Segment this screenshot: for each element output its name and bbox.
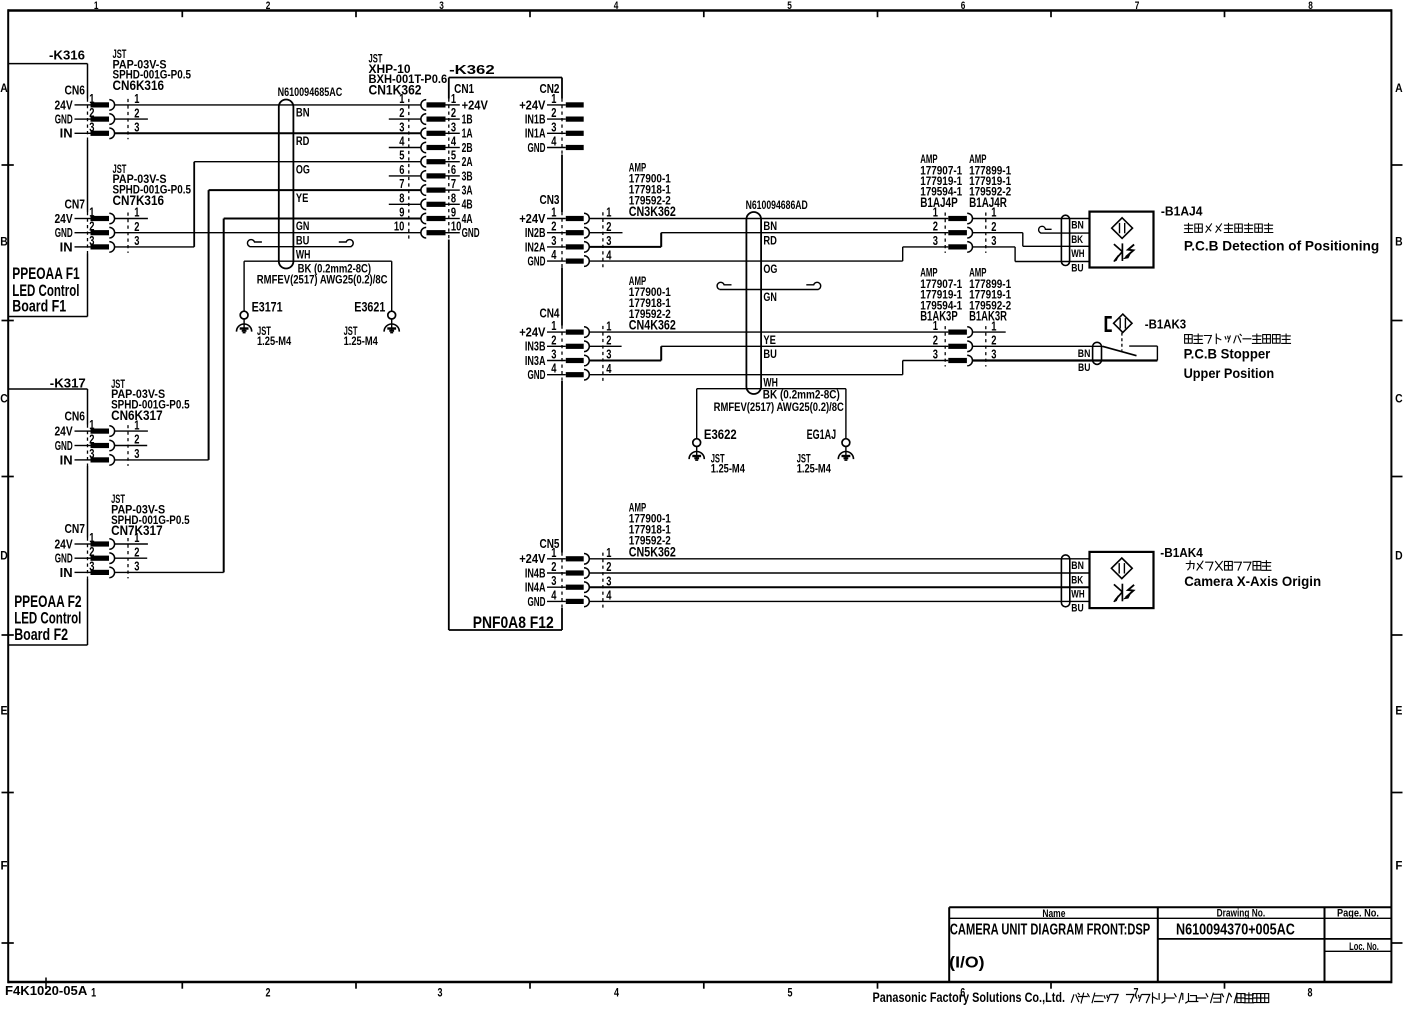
svg-text:2: 2 — [89, 220, 94, 234]
svg-text:CN5K362: CN5K362 — [629, 544, 676, 559]
svg-text:CN7: CN7 — [65, 196, 86, 211]
svg-text:10: 10 — [394, 220, 405, 234]
svg-text:1.25-M4: 1.25-M4 — [344, 334, 378, 348]
svg-text:E3621: E3621 — [354, 299, 385, 314]
svg-text:8: 8 — [1308, 0, 1313, 12]
svg-text:GN: GN — [296, 219, 310, 233]
svg-text:1: 1 — [94, 0, 99, 12]
svg-text:5: 5 — [399, 149, 404, 163]
svg-text:CN4K362: CN4K362 — [629, 318, 676, 333]
svg-text:2: 2 — [89, 106, 94, 120]
svg-text:+24V: +24V — [519, 326, 546, 340]
svg-text:2: 2 — [606, 334, 611, 348]
svg-text:3: 3 — [551, 120, 556, 134]
svg-text:2: 2 — [134, 220, 139, 234]
svg-text:BK: BK — [1071, 574, 1083, 586]
svg-text:2: 2 — [933, 333, 938, 347]
svg-text:BU: BU — [296, 233, 310, 247]
svg-text:6: 6 — [399, 163, 404, 177]
svg-text:N610094685AC: N610094685AC — [278, 85, 343, 99]
svg-text:B1AK3R: B1AK3R — [969, 309, 1007, 324]
svg-text:24V: 24V — [55, 212, 74, 226]
svg-text:GND: GND — [528, 141, 546, 155]
svg-text:3: 3 — [438, 986, 443, 1000]
svg-text:YE: YE — [296, 191, 309, 205]
svg-text:CN7: CN7 — [65, 521, 86, 536]
svg-text:-B1AJ4: -B1AJ4 — [1161, 204, 1203, 219]
svg-text:2B: 2B — [462, 141, 473, 155]
svg-text:4: 4 — [614, 0, 619, 12]
svg-text:1: 1 — [399, 92, 404, 106]
svg-text:1: 1 — [89, 531, 94, 545]
svg-text:IN: IN — [60, 453, 73, 467]
svg-text:1: 1 — [89, 418, 94, 432]
svg-text:2A: 2A — [462, 155, 473, 169]
svg-text:3: 3 — [89, 559, 94, 573]
svg-text:4: 4 — [451, 135, 456, 149]
svg-text:BU: BU — [1071, 262, 1083, 274]
svg-text:2: 2 — [266, 0, 271, 12]
svg-text:2: 2 — [551, 106, 556, 120]
svg-text:IN4A: IN4A — [525, 581, 546, 595]
svg-text:2: 2 — [606, 560, 611, 574]
svg-text:+24V: +24V — [519, 552, 546, 566]
svg-text:P.C.B Detection of Positioning: P.C.B Detection of Positioning — [1184, 238, 1379, 254]
svg-text:CN5: CN5 — [540, 536, 560, 551]
svg-text:B1AK3P: B1AK3P — [920, 309, 958, 324]
svg-text:GN: GN — [763, 290, 777, 304]
svg-text:1: 1 — [933, 319, 938, 333]
svg-text:GND: GND — [528, 368, 546, 382]
svg-text:P.C.B Stopper: P.C.B Stopper — [1184, 345, 1271, 361]
svg-text:1: 1 — [991, 206, 996, 220]
svg-text:D: D — [0, 551, 8, 563]
svg-text:B: B — [0, 237, 8, 249]
svg-text:3: 3 — [991, 234, 996, 248]
svg-text:2: 2 — [134, 106, 139, 120]
svg-text:IN2A: IN2A — [525, 240, 546, 254]
svg-text:1: 1 — [134, 531, 139, 545]
svg-text:6: 6 — [451, 163, 456, 177]
svg-text:N610094370+005AC: N610094370+005AC — [1176, 921, 1295, 938]
svg-text:+24V: +24V — [462, 98, 489, 112]
svg-text:RD: RD — [763, 233, 777, 247]
svg-text:(I/O): (I/O) — [949, 954, 984, 971]
svg-text:CAMERA UNIT DIAGRAM FRONT:DSP: CAMERA UNIT DIAGRAM FRONT:DSP — [950, 921, 1150, 938]
svg-text:4: 4 — [614, 986, 619, 1000]
svg-text:2: 2 — [551, 220, 556, 234]
svg-text:2: 2 — [991, 220, 996, 234]
svg-text:PNF0A8 F12: PNF0A8 F12 — [473, 614, 554, 632]
svg-text:IN1B: IN1B — [525, 113, 546, 127]
svg-text:2: 2 — [134, 545, 139, 559]
svg-text:Page. No.: Page. No. — [1337, 908, 1379, 920]
svg-text:A: A — [0, 83, 8, 95]
svg-text:1: 1 — [134, 92, 139, 106]
svg-text:CN6: CN6 — [65, 409, 86, 424]
svg-text:IN4B: IN4B — [525, 566, 546, 580]
svg-text:24V: 24V — [55, 425, 74, 439]
svg-text:Name: Name — [1042, 908, 1065, 920]
svg-text:IN1A: IN1A — [525, 127, 546, 141]
svg-text:Loc. No.: Loc. No. — [1349, 941, 1379, 953]
svg-text:BN: BN — [296, 106, 310, 120]
svg-text:3: 3 — [89, 234, 94, 248]
svg-text:F4K1020-05A: F4K1020-05A — [5, 984, 87, 998]
svg-text:9: 9 — [399, 206, 404, 220]
svg-text:E: E — [1395, 706, 1402, 718]
svg-text:1: 1 — [134, 206, 139, 220]
svg-text:IN: IN — [60, 566, 73, 580]
svg-text:GND: GND — [55, 226, 73, 240]
svg-text:4: 4 — [606, 589, 611, 603]
svg-text:C: C — [1395, 394, 1403, 406]
svg-text:-K316: -K316 — [49, 48, 85, 63]
svg-text:3: 3 — [134, 447, 139, 461]
svg-text:2: 2 — [551, 333, 556, 347]
svg-text:8: 8 — [399, 191, 404, 205]
svg-text:5: 5 — [451, 149, 456, 163]
svg-text:Camera X-Axis Origin: Camera X-Axis Origin — [1184, 573, 1321, 589]
svg-text:1: 1 — [551, 319, 556, 333]
svg-text:D: D — [1395, 551, 1403, 563]
svg-text:5: 5 — [787, 0, 792, 12]
svg-text:24V: 24V — [55, 537, 74, 551]
svg-text:IN2B: IN2B — [525, 226, 546, 240]
svg-text:1: 1 — [551, 546, 556, 560]
svg-text:7: 7 — [1135, 0, 1140, 12]
svg-text:Upper Position: Upper Position — [1184, 365, 1275, 381]
svg-text:B: B — [1395, 237, 1403, 249]
svg-text:4: 4 — [399, 135, 404, 149]
svg-text:BU: BU — [1078, 362, 1090, 374]
svg-text:WH: WH — [296, 248, 311, 262]
svg-text:Panasonic Factory Solutions Co: Panasonic Factory Solutions Co.,Ltd. — [873, 990, 1066, 1005]
svg-text:IN: IN — [60, 240, 73, 254]
svg-text:1: 1 — [91, 986, 96, 1000]
svg-text:2: 2 — [933, 220, 938, 234]
svg-text:7: 7 — [451, 177, 456, 191]
svg-text:E3622: E3622 — [704, 427, 737, 442]
svg-text:1: 1 — [134, 418, 139, 432]
svg-text:2: 2 — [991, 334, 996, 348]
svg-text:3B: 3B — [462, 169, 473, 183]
svg-text:4: 4 — [551, 135, 556, 149]
svg-text:GND: GND — [55, 113, 73, 127]
svg-text:3A: 3A — [462, 184, 473, 198]
svg-text:CN3: CN3 — [540, 192, 560, 207]
svg-text:B1AJ4R: B1AJ4R — [969, 195, 1007, 210]
svg-text:6: 6 — [961, 0, 966, 12]
svg-text:3: 3 — [933, 348, 938, 362]
svg-text:4: 4 — [551, 248, 556, 262]
svg-text:1: 1 — [551, 92, 556, 106]
svg-text:GND: GND — [462, 226, 480, 240]
svg-text:Drawing No.: Drawing No. — [1217, 908, 1266, 920]
svg-text:-B1AK4: -B1AK4 — [1160, 545, 1203, 560]
svg-text:3: 3 — [134, 560, 139, 574]
svg-text:OG: OG — [763, 262, 777, 276]
svg-text:9: 9 — [451, 206, 456, 220]
svg-text:3: 3 — [89, 447, 94, 461]
svg-text:10: 10 — [451, 220, 462, 234]
svg-text:IN: IN — [60, 127, 73, 141]
svg-text:BN: BN — [1078, 348, 1091, 360]
svg-text:E: E — [1, 706, 8, 718]
svg-text:WH: WH — [1071, 248, 1084, 260]
svg-text:PPEOAA F2: PPEOAA F2 — [14, 593, 81, 611]
svg-text:LED Control: LED Control — [14, 610, 81, 628]
svg-text:2: 2 — [89, 545, 94, 559]
svg-text:E3171: E3171 — [252, 299, 283, 314]
svg-text:1.25-M4: 1.25-M4 — [257, 334, 291, 348]
svg-text:1.25-M4: 1.25-M4 — [797, 461, 831, 475]
svg-text:1: 1 — [933, 206, 938, 220]
svg-text:1.25-M4: 1.25-M4 — [711, 461, 745, 475]
svg-text:24V: 24V — [55, 98, 74, 112]
svg-text:2: 2 — [89, 433, 94, 447]
svg-text:F: F — [1, 861, 8, 873]
svg-text:A: A — [1395, 83, 1403, 95]
svg-text:3: 3 — [551, 574, 556, 588]
svg-text:GND: GND — [55, 552, 73, 566]
svg-text:CN2: CN2 — [540, 81, 560, 96]
svg-text:EG1AJ: EG1AJ — [807, 427, 837, 442]
svg-text:N610094686AD: N610094686AD — [746, 198, 808, 212]
svg-text:1: 1 — [606, 206, 611, 220]
svg-text:2: 2 — [134, 433, 139, 447]
svg-text:CN6K316: CN6K316 — [113, 78, 165, 93]
svg-text:BN: BN — [1071, 220, 1084, 232]
svg-text:WH: WH — [1071, 589, 1084, 601]
svg-text:-K317: -K317 — [50, 376, 86, 391]
svg-text:Board F2: Board F2 — [14, 626, 68, 644]
svg-text:1: 1 — [606, 319, 611, 333]
svg-text:GND: GND — [528, 595, 546, 609]
svg-text:RMFEV(2517) AWG25(0.2)/8C: RMFEV(2517) AWG25(0.2)/8C — [257, 273, 388, 287]
svg-text:-B1AK3: -B1AK3 — [1145, 317, 1186, 332]
svg-text:BU: BU — [1071, 603, 1083, 615]
svg-text:CN6: CN6 — [65, 83, 86, 98]
svg-text:2: 2 — [551, 560, 556, 574]
svg-text:1: 1 — [89, 206, 94, 220]
svg-text:RMFEV(2517) AWG25(0.2)/8C: RMFEV(2517) AWG25(0.2)/8C — [714, 400, 845, 414]
svg-text:3: 3 — [439, 0, 444, 12]
svg-text:IN3A: IN3A — [525, 354, 546, 368]
svg-text:4B: 4B — [462, 198, 473, 212]
svg-text:3: 3 — [551, 348, 556, 362]
svg-text:CN4: CN4 — [540, 306, 561, 321]
svg-text:B1AJ4P: B1AJ4P — [920, 195, 958, 210]
svg-text:4: 4 — [551, 362, 556, 376]
svg-text:1B: 1B — [462, 113, 473, 127]
svg-text:OG: OG — [296, 162, 310, 176]
svg-text:BU: BU — [763, 347, 777, 361]
svg-text:7: 7 — [399, 177, 404, 191]
svg-text:GND: GND — [55, 439, 73, 453]
svg-text:4A: 4A — [462, 212, 473, 226]
svg-text:1: 1 — [451, 92, 456, 106]
svg-text:5: 5 — [788, 986, 793, 1000]
svg-text:3: 3 — [134, 234, 139, 248]
svg-text:+24V: +24V — [519, 98, 546, 112]
svg-text:PPEOAA F1: PPEOAA F1 — [12, 265, 79, 283]
svg-text:-K362: -K362 — [449, 62, 495, 77]
svg-text:F: F — [1395, 861, 1402, 873]
svg-text:+24V: +24V — [519, 212, 546, 226]
svg-text:CN3K362: CN3K362 — [629, 204, 676, 219]
svg-text:1: 1 — [89, 92, 94, 106]
svg-text:BN: BN — [763, 219, 777, 233]
svg-text:BK: BK — [1071, 234, 1083, 246]
svg-text:YE: YE — [763, 333, 776, 347]
svg-text:8: 8 — [1308, 986, 1313, 1000]
svg-text:1: 1 — [991, 319, 996, 333]
svg-text:4: 4 — [606, 362, 611, 376]
svg-text:3: 3 — [399, 120, 404, 134]
svg-text:3: 3 — [551, 234, 556, 248]
svg-text:2: 2 — [266, 986, 271, 1000]
svg-text:2: 2 — [451, 106, 456, 120]
svg-text:3: 3 — [89, 120, 94, 134]
svg-text:CN1K362: CN1K362 — [369, 83, 422, 98]
svg-text:1: 1 — [606, 546, 611, 560]
svg-text:IN3B: IN3B — [525, 340, 546, 354]
svg-text:Board F1: Board F1 — [12, 298, 66, 316]
svg-text:CN1: CN1 — [454, 81, 474, 96]
svg-text:4: 4 — [551, 588, 556, 602]
svg-text:3: 3 — [933, 234, 938, 248]
svg-text:1A: 1A — [462, 127, 473, 141]
svg-text:2: 2 — [606, 220, 611, 234]
svg-text:8: 8 — [451, 191, 456, 205]
svg-text:1: 1 — [551, 206, 556, 220]
svg-text:3: 3 — [451, 120, 456, 134]
svg-text:BN: BN — [1071, 560, 1084, 572]
svg-text:2: 2 — [399, 106, 404, 120]
svg-text:GND: GND — [528, 255, 546, 269]
svg-text:RD: RD — [296, 134, 310, 148]
svg-text:4: 4 — [606, 248, 611, 262]
svg-text:C: C — [0, 394, 8, 406]
